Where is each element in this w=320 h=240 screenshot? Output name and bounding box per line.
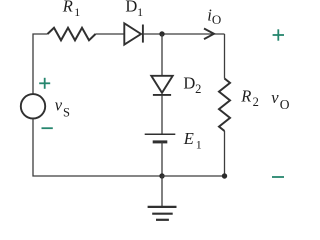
svg-text:2: 2 [195, 82, 201, 96]
svg-text:R: R [240, 86, 251, 105]
plus sign output (teal) [273, 29, 284, 40]
wire right rail bottom [224, 131, 226, 176]
wire R1 to D1 [96, 33, 125, 35]
wire D1 to top-right corner [143, 33, 225, 35]
svg-text:D: D [183, 73, 195, 92]
wire E1 to bottom rail [161, 142, 163, 176]
plus sign source (teal) [39, 78, 50, 89]
minus sign output (teal) [272, 176, 284, 178]
current arrow iO [204, 29, 214, 40]
voltage source vS [21, 94, 45, 118]
svg-text:D: D [125, 0, 137, 15]
svg-text:R: R [62, 0, 73, 16]
svg-text:O: O [212, 12, 221, 27]
wire right rail top [224, 34, 226, 79]
node junction dot bottom-right [222, 173, 227, 178]
minus sign source (teal) [42, 127, 53, 129]
svg-text:S: S [63, 105, 70, 119]
wire left rail top (source top to top-left corner) [33, 34, 48, 94]
ground symbol [148, 207, 177, 220]
svg-text:2: 2 [253, 95, 259, 109]
svg-text:E: E [183, 129, 194, 148]
battery E1 [145, 134, 176, 142]
svg-text:v: v [55, 95, 63, 114]
wire middle branch top (node to D2) [161, 34, 163, 76]
svg-text:1: 1 [137, 5, 143, 19]
svg-text:1: 1 [74, 5, 80, 19]
node junction dot bottom-middle [159, 173, 164, 178]
svg-text:O: O [280, 97, 290, 112]
resistor R1 [48, 28, 96, 41]
diode D1 [124, 23, 143, 44]
ground stub wire [161, 176, 163, 207]
wire D2 to E1 [161, 95, 163, 134]
wire bottom rail right [162, 175, 225, 177]
svg-text:1: 1 [196, 137, 202, 151]
node junction dot at D1/D2 [159, 31, 164, 36]
wire left rail bottom [33, 119, 162, 177]
diode D2 [151, 76, 172, 95]
resistor R2 [219, 79, 230, 132]
svg-text:v: v [271, 88, 279, 107]
